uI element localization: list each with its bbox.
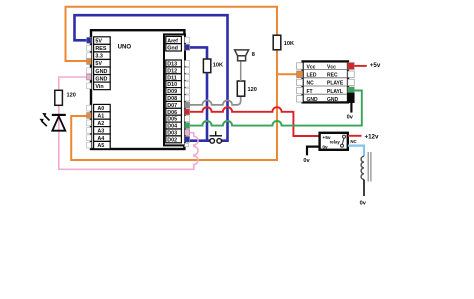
UNO right pin D06 (166, 108, 182, 115)
wire orange branch to module LED pin (277, 73, 297, 75)
pushbutton S1 (210, 131, 223, 143)
UNO right pin header box (164, 34, 185, 145)
solenoid L1 (361, 152, 371, 182)
wire black module GND down (350, 103, 352, 113)
module right stub REC (348, 71, 354, 77)
svg-text:0v: 0v (322, 144, 328, 150)
svg-text:5V: 5V (95, 39, 102, 45)
svg-text:RES: RES (95, 46, 106, 52)
svg-text:0v: 0v (303, 158, 310, 164)
UNO right stub D13 (185, 61, 190, 67)
svg-text:8: 8 (252, 52, 255, 58)
UNO left stub A4 (87, 135, 92, 141)
UNO left pin A2 (94, 119, 111, 127)
UNO left stub A2 (87, 120, 92, 126)
svg-text:relay: relay (330, 140, 341, 145)
UNO left pin 5V (94, 37, 111, 45)
svg-text:+12v: +12v (365, 133, 379, 140)
UNO left stub 5V2 (orange) (87, 59, 92, 65)
svg-text:REC: REC (327, 73, 338, 79)
UNO left pin A3 (94, 127, 111, 135)
resistor 10K pull-down (blue net) (203, 59, 210, 73)
UNO right pin Gnd (166, 44, 182, 52)
UNO right pin D05 (166, 115, 182, 122)
svg-text:NC: NC (307, 81, 315, 87)
wire red module Vcc to +5v (354, 65, 367, 67)
UNO right pin D03 (166, 129, 182, 136)
UNO right pin D09 (166, 88, 182, 95)
resistor 10K pull-up (orange net) (273, 35, 281, 50)
wire cyan relay to solenoid (348, 146, 364, 157)
UNO left pin 5V (2) (94, 59, 111, 67)
wire blue 5V to switch (top loop) (75, 15, 228, 141)
UNO right pin D10 (166, 81, 182, 88)
UNO right stub D03 (pink) (185, 130, 190, 136)
UNO left pin RES (94, 44, 111, 52)
UNO right pin D13 (166, 60, 182, 67)
wire blue D02 to switch (190, 139, 210, 142)
UNO right stub D05 (185, 116, 190, 122)
module right stub PLAYL (green) (348, 87, 354, 93)
UNO left stub A1 (orange) (87, 113, 92, 119)
UNO right pin D02 (166, 136, 182, 143)
wire red D06 to relay +5v (190, 107, 319, 136)
UNO right pin D04 (166, 122, 182, 129)
UNO left stub A5 (87, 142, 92, 148)
UNO left pin GND (2) (94, 75, 111, 83)
svg-text:0v: 0v (347, 115, 354, 121)
svg-text:Gnd: Gnd (167, 46, 178, 52)
module right stub Vcc (red) (348, 63, 354, 70)
svg-text:GND: GND (327, 97, 339, 103)
UNO left pin A5 (94, 141, 111, 149)
wire gray D07 to 120 resistor (speaker) (190, 96, 241, 105)
UNO left pin Vin (94, 82, 111, 90)
UNO left stub GND2 (pink) (87, 74, 92, 80)
UNO right pin D12 (166, 67, 182, 74)
svg-text:120: 120 (248, 87, 257, 93)
LED D1 (40, 113, 66, 131)
wire blue Gnd to 10K (190, 47, 207, 59)
wire blue 10K bottom to switch left node (206, 73, 209, 141)
svg-text:NC: NC (350, 139, 357, 144)
module left stub LED (orange) (297, 71, 303, 78)
svg-text:UNO: UNO (118, 44, 132, 51)
svg-text:Vcc: Vcc (307, 64, 316, 70)
svg-text:5V: 5V (95, 61, 102, 67)
wire red relay to +12v (348, 135, 362, 137)
wire green D04 to module PLAYL (190, 91, 362, 126)
UNO left stub 3.3 (87, 53, 92, 59)
UNO right pin D11 (166, 74, 182, 81)
svg-text:GND: GND (307, 97, 319, 103)
UNO right stub D06 (red) (185, 109, 190, 115)
svg-text:10K: 10K (213, 63, 223, 69)
svg-text:D02: D02 (167, 137, 177, 143)
module left stub NC (297, 79, 303, 85)
svg-text:120: 120 (67, 92, 76, 98)
svg-text:PLAYE: PLAYE (327, 81, 344, 87)
UNO left pin A4 (94, 134, 111, 142)
UNO right pin Aref (166, 36, 182, 44)
UNO left pin 3.3 (94, 52, 111, 60)
Arduino UNO U1 (91, 30, 184, 149)
UNO left stub A3 (87, 127, 92, 133)
UNO right stub D08 (185, 95, 190, 101)
UNO right stub D11 (185, 74, 190, 80)
svg-text:GND: GND (95, 69, 107, 75)
speaker SP1 (8 ohm) (235, 50, 255, 61)
svg-text:Vin: Vin (95, 84, 103, 90)
module right stub GND (black) (348, 93, 354, 103)
wire orange 5V to pull-up 10K top segment (66, 7, 278, 61)
relay K1 (320, 133, 348, 151)
resistor 120 (speaker) (237, 81, 244, 96)
svg-text:10K: 10K (284, 41, 294, 47)
UNO left pin A0 (94, 104, 111, 112)
wire gray resistor to speaker (240, 61, 242, 81)
UNO left stub GND (87, 68, 92, 74)
wire black solenoid to 0v (363, 180, 365, 197)
UNO right stub D04 (green) (185, 123, 190, 129)
UNO right stub D12 (185, 67, 190, 73)
module right stub PLAYE (348, 79, 354, 85)
UNO right stub D09 (185, 88, 190, 94)
svg-text:Vcc: Vcc (327, 64, 336, 70)
UNO right stub D07 (gray) (185, 102, 190, 108)
wire orange 10K bottom down to bottom rail and up to A1 (71, 50, 277, 160)
svg-text:A5: A5 (97, 143, 104, 149)
module left stub GND (297, 96, 303, 102)
UNO left pin GND (94, 67, 111, 75)
svg-text:0v: 0v (360, 201, 367, 207)
svg-text:GND: GND (95, 76, 107, 82)
UNO left stub 5V (blue) (87, 37, 92, 43)
wire pink D03 to LED anode (59, 77, 198, 169)
svg-text:3.3: 3.3 (95, 54, 103, 60)
UNO right pin D08 (166, 95, 182, 102)
UNO left stub A0 (87, 105, 92, 111)
UNO right stub extra below D02 (185, 143, 189, 146)
svg-text:FT: FT (307, 89, 313, 95)
resistor 120 (LED) (55, 90, 63, 105)
wire black relay 0v (307, 147, 320, 156)
UNO left stub Vin (87, 83, 92, 89)
svg-text:LED: LED (307, 73, 317, 79)
UNO right stub Gnd (blue) (185, 44, 190, 50)
UNO left stub RES (87, 45, 92, 51)
UNO left pin A1 (94, 112, 111, 120)
module left stub Vcc (297, 63, 303, 69)
UNO right stub Aref (185, 37, 190, 43)
svg-text:PLAYL: PLAYL (327, 89, 343, 95)
UNO right stub D10 (185, 81, 190, 87)
UNO right stub D02 (blue) (185, 136, 190, 142)
module left stub FT (297, 87, 303, 93)
UNO right pin D07 (166, 101, 182, 108)
svg-text:+5v: +5v (370, 62, 381, 69)
voice module U2 (ISD1820) (303, 61, 348, 103)
